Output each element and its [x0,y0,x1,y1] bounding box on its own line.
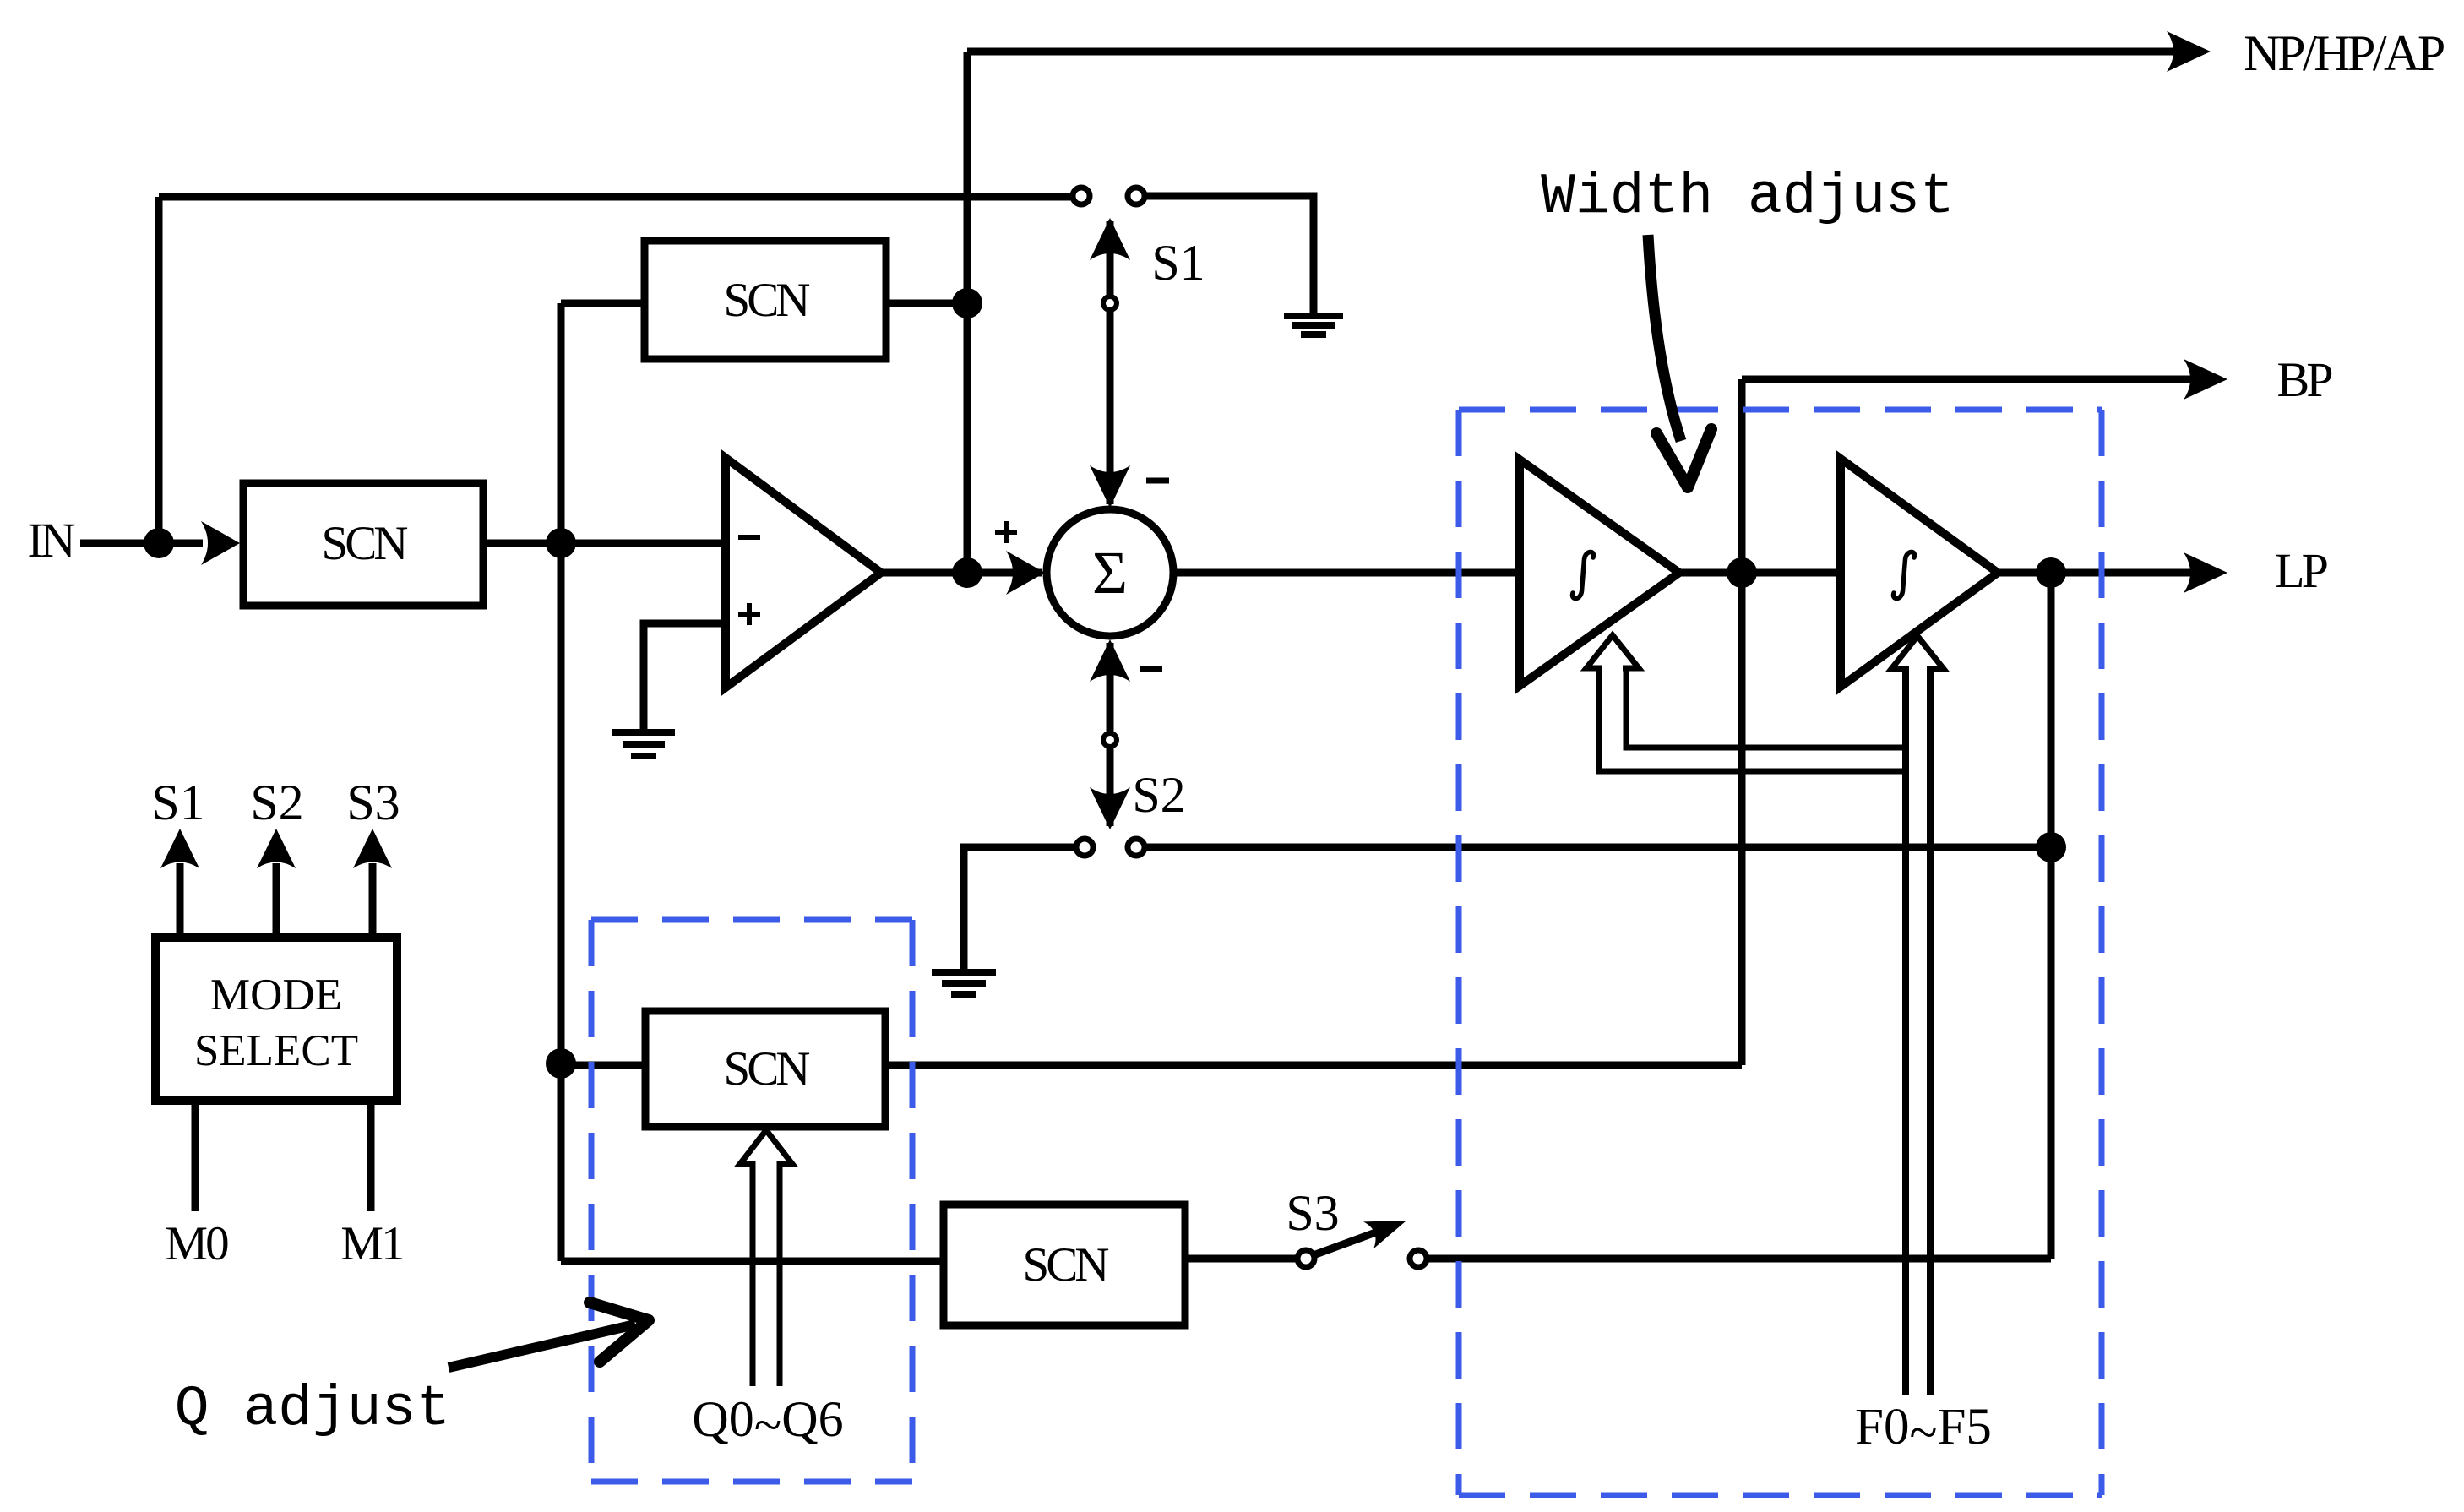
SCN block 1 (input) [243,483,483,606]
wire SCN2 output [886,300,967,307]
wire S2 left contact to ground [964,847,1075,971]
arrowhead BP [2184,359,2227,400]
junction dot IN [144,528,174,558]
mode select S3 output arrow [353,829,392,938]
junction dot SCN3 input [546,1048,576,1079]
wire M1 input [367,1101,375,1211]
svg-text:M0: M0 [165,1217,228,1270]
svg-text:F0~F5: F0~F5 [1855,1399,1992,1461]
svg-text:NP/HP/AP: NP/HP/AP [2244,25,2444,81]
ground S2 [932,972,996,994]
ground S1 [1284,316,1343,334]
svg-text:S2: S2 [250,775,303,830]
wire IN feedback top to S1 [159,193,1071,201]
wire NP/HP/AP output [967,48,2200,56]
arrowhead NP/HP/AP [2167,31,2211,72]
svg-text:SCN: SCN [322,517,408,570]
ground op-amp plus [612,732,675,756]
svg-text:Q0~Q6: Q0~Q6 [692,1391,843,1453]
minus sign at summer top input [1146,478,1169,484]
control arrow integrator1 (width adjust bus) [1586,635,1909,771]
wire LP feedback vertical [2048,573,2055,1259]
svg-text:BP: BP [2277,352,2332,407]
control arrow SCN3 (Q bus) [740,1130,792,1386]
wire S1 right contact to ground [1146,196,1314,313]
wire M0 input [192,1101,199,1211]
svg-text:SCN: SCN [1023,1238,1109,1292]
wire integrator1 output [1679,569,1841,577]
arrowhead LP [2184,552,2227,593]
wire BP output [1742,376,2217,383]
wire to SCN2 input [561,300,645,307]
svg-text:Q adjust: Q adjust [175,1377,450,1442]
summer node [1047,509,1173,636]
svg-text:M1: M1 [340,1217,403,1270]
svg-text:S2: S2 [1132,767,1185,823]
svg-text:SCN: SCN [724,274,810,327]
svg-text:Width adjust: Width adjust [1541,165,1955,230]
arrowhead S1 down into summer [1090,465,1130,508]
wire SCN3 output to node [885,1062,1742,1069]
wire S2 double arrow shaft [1107,643,1114,826]
svg-text:Σ: Σ [1092,539,1128,606]
arrowhead into summer left [1006,551,1045,595]
wire IN feedback vertical [155,197,163,543]
svg-text:MODE: MODE [210,971,342,1020]
wire SCN1 output to op-amp [483,540,726,547]
arrowhead S2 up into summer [1090,639,1130,682]
junction dot integrator2 output [2036,557,2066,588]
wire node B vertical (SCN2/SCN3 tap) [558,303,565,1261]
callout arrow Width adjust [1648,235,1711,487]
integrator 2 [1841,459,1998,687]
minus sign at summer bottom input [1140,666,1162,672]
switch S2 contacts [1076,839,1093,856]
svg-text:IN: IN [27,513,74,568]
wire op-amp output vertical to NP [964,52,971,573]
switch S1 shaft circle [1103,296,1117,310]
wire IN input [80,540,203,547]
wire summer output [1173,569,1520,577]
wire S1 double arrow shaft [1107,221,1114,504]
plus sign at summer input [995,521,1017,543]
arrowhead S2 down [1090,787,1130,829]
SCN block 4 (bottom) [944,1205,1185,1325]
svg-text:S3: S3 [1286,1185,1339,1241]
dashed box Q adjust [591,920,912,1482]
integrator 1 [1520,460,1679,686]
switch S1 contacts [1073,188,1090,204]
control arrow integrator2 (F bus head) [1891,636,1944,673]
wire BP/Q feedback vertical [1738,379,1746,1065]
svg-text:SCN: SCN [724,1042,810,1096]
wire S3 right contact to LP feedback [1428,1255,2051,1263]
wire op-amp output [881,569,1042,577]
SCN block 3 (Q adjust) [645,1011,885,1127]
MODE SELECT block [155,938,397,1101]
svg-text:S1: S1 [1151,235,1205,291]
svg-text:SELECT: SELECT [194,1026,358,1075]
wire S2 right contact to LP feedback [1145,844,2051,851]
junction dot integrator1 output [1727,557,1757,588]
wire SCN4 output to S3 [1185,1255,1297,1263]
mode select S1 output arrow [160,829,199,938]
callout arrow Q adjust [449,1303,649,1368]
arrowhead IN to SCN1 [201,521,240,565]
SCN block 2 (top) [645,241,886,359]
F0~F5 bus lines [1906,667,1930,1395]
arrowhead S1 up [1090,218,1130,260]
dashed box Width adjust [1459,410,2102,1495]
wire SCN4 input [561,1258,944,1265]
svg-text:S1: S1 [151,775,204,830]
junction dot op-amp output [952,557,982,588]
junction dot SCN2 output [952,288,982,318]
svg-text:LP: LP [2275,543,2326,598]
switch S3 [1297,1207,1427,1267]
op-amp U1 [726,458,881,688]
wire integrator2 output to LP [1998,569,2217,577]
svg-text:S3: S3 [346,775,400,830]
wire op-amp plus input [644,623,726,732]
switch S2 shaft circle [1103,733,1117,747]
junction dot SCN1 output [546,528,576,558]
wire SCN3 input [561,1062,645,1069]
mode select S2 output arrow [257,829,296,938]
junction dot S2 feedback tap [2036,832,2066,862]
